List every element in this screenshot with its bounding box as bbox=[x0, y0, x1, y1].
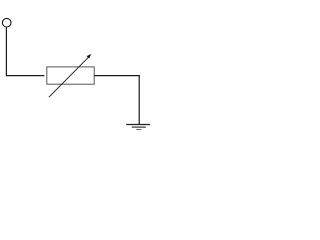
ground bar 3 (short) bbox=[136, 129, 141, 131]
wire (horizontal from resistor right lead) bbox=[94, 75, 139, 77]
terminal circle (open input terminal) bbox=[2, 18, 11, 27]
variable resistor arrow shaft bbox=[49, 56, 90, 97]
wire (vertical down to ground) bbox=[138, 75, 140, 125]
wire (vertical from terminal down) bbox=[5, 27, 7, 75]
ground bar 1 (long) bbox=[126, 124, 151, 126]
variable resistor body (IEC rectangle) bbox=[47, 67, 94, 84]
ground bar 2 (medium) bbox=[132, 126, 146, 128]
wire (horizontal to resistor left lead) bbox=[6, 75, 45, 77]
variable resistor arrowhead bbox=[87, 54, 92, 59]
